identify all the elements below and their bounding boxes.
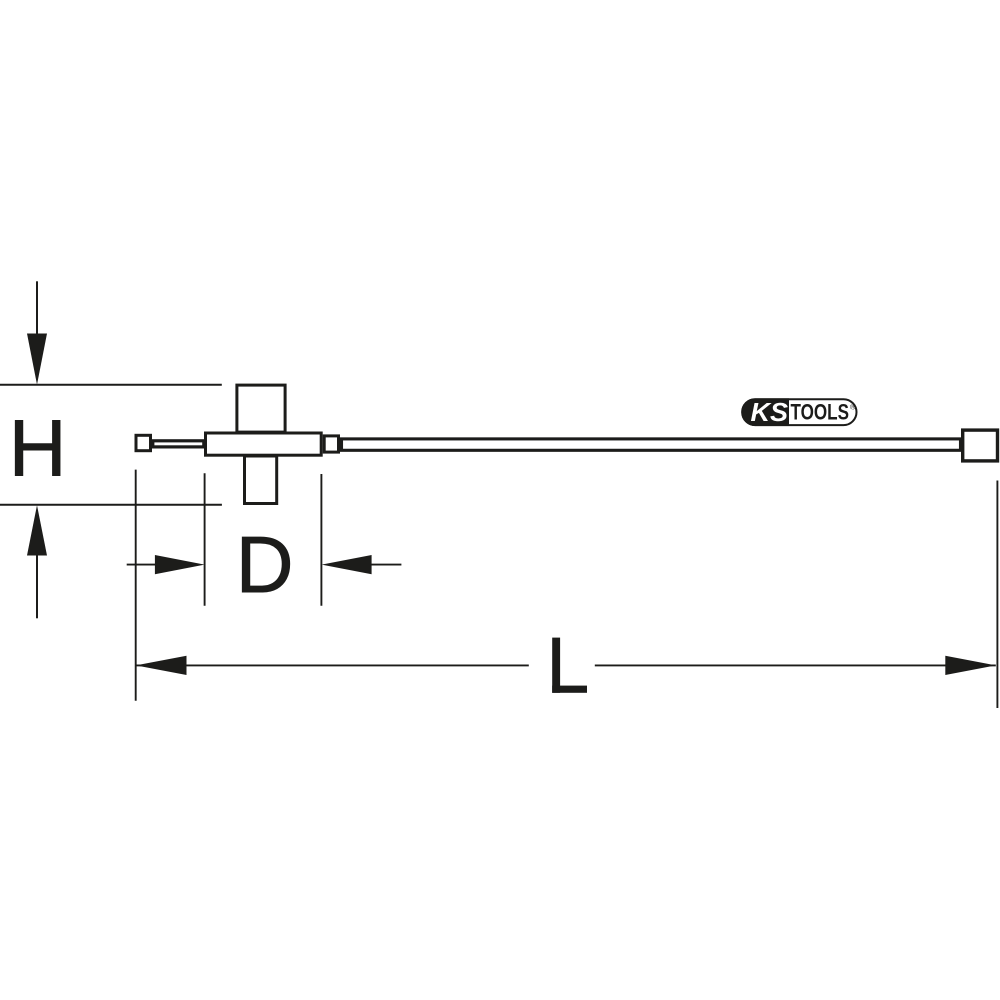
svg-text:KS: KS [751, 397, 789, 427]
svg-text:D: D [236, 520, 294, 609]
svg-text:TOOLS: TOOLS [791, 400, 850, 425]
svg-text:H: H [9, 404, 67, 493]
svg-text:®: ® [850, 402, 856, 411]
